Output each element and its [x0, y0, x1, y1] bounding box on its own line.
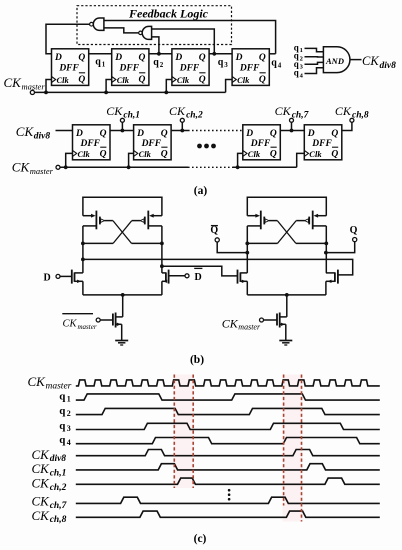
label: CK_ch,2 (waveform) — [32, 476, 67, 493]
svg-text:ch,8: ch,8 — [352, 110, 369, 120]
svg-text:q: q — [153, 57, 159, 68]
svg-text:D: D — [195, 272, 202, 283]
wire: slave latch drain rail right segment — [296, 242, 326, 244]
wire: q4 to AND input — [305, 68, 324, 74]
svg-text:Clk: Clk — [237, 75, 250, 85]
wire: master latch drain rail left segment — [83, 242, 113, 244]
wire: slave latch cross-couple diagonal 2 — [278, 221, 297, 244]
wire: DFF_ch7 Q to DFF_ch8 D — [280, 130, 304, 132]
junction: Q tap — [324, 251, 328, 255]
wire: CK_div8 to DFF_ch1 D — [56, 130, 73, 132]
wire: master right node to slave left gate — [162, 266, 238, 276]
junction: clk tap DFF_ch7 — [236, 165, 240, 169]
svg-text:1: 1 — [300, 47, 303, 54]
label: AND input q2 — [294, 51, 303, 63]
svg-text:CK: CK — [32, 508, 51, 523]
wire: clk riser DFF_ch8 — [297, 153, 305, 167]
label: AND input q1 — [294, 42, 303, 54]
svg-text:ch,7: ch,7 — [50, 501, 68, 511]
wire: q2 node to G2 bottom input — [152, 37, 159, 54]
wire: DFF1 Q to DFF2 D (node q1) — [89, 53, 112, 55]
svg-text:4: 4 — [278, 62, 282, 70]
svg-text:Q: Q — [259, 75, 266, 85]
svg-text:Q: Q — [161, 129, 168, 139]
svg-text:CK: CK — [16, 124, 35, 139]
label: CK_ch,1 — [106, 104, 140, 120]
and gate U1 (4-input AND) — [323, 47, 350, 73]
flip-flop DFF4 — [232, 49, 269, 86]
waveform: q4 — [76, 438, 380, 444]
svg-text:q: q — [95, 57, 101, 68]
wire: clk riser to DFF1 — [46, 80, 52, 93]
svg-text:CK: CK — [12, 160, 31, 175]
transistor N2 (master input, D-bar): leads — [162, 270, 185, 295]
wire: clk riser to DFF3 — [166, 80, 172, 93]
svg-text:AND: AND — [325, 56, 344, 66]
junction: clk tap DFF3 — [164, 91, 168, 95]
terminal: D-bar input — [185, 274, 189, 278]
svg-text:CK: CK — [63, 319, 78, 330]
waveform: CKch8 — [76, 511, 380, 517]
junction: master tail node — [121, 293, 125, 297]
svg-text:master: master — [78, 323, 97, 331]
svg-text:DFF: DFF — [119, 64, 140, 74]
svg-text:Q: Q — [139, 53, 146, 63]
wire: clk riser to DFF2 — [106, 80, 112, 93]
svg-text:3: 3 — [67, 424, 71, 433]
flip-flop DFF1 — [52, 49, 89, 86]
wire: CK_master bus row2 dotted segment — [188, 166, 233, 168]
svg-text:Feedback Logic: Feedback Logic — [128, 6, 209, 20]
wire: clk riser to DFF4 — [226, 80, 233, 93]
wire: G2 output to G1 bottom input — [104, 28, 139, 33]
transistor N1 (master input, D): leads — [60, 270, 83, 295]
junction: slave latch left drain node — [245, 242, 249, 246]
svg-text:Q: Q — [259, 53, 266, 63]
svg-text:Q: Q — [199, 75, 206, 85]
flip-flop DFF_ch7 — [243, 125, 280, 160]
svg-text:Q: Q — [139, 75, 146, 85]
svg-text:Q: Q — [270, 149, 277, 159]
wire: CK_master bus row2 right segment — [233, 166, 297, 168]
highlight band 1 (between marker lines) — [173, 375, 194, 489]
wire: master latch left vertical to NMOS drain — [82, 243, 84, 273]
terminal: Q — [353, 238, 357, 242]
svg-text:div8: div8 — [380, 61, 397, 71]
svg-text:(b): (b) — [190, 354, 204, 366]
wire: CK_ch2 stub — [181, 122, 183, 130]
marker line 2 (red dashed) — [192, 375, 194, 489]
svg-text:2: 2 — [160, 61, 164, 69]
wire: slave latch cross-couple diagonal 1 — [277, 221, 296, 244]
junction: q3 tap — [212, 52, 216, 56]
terminal: CK_ch8 — [350, 118, 354, 122]
svg-text:DFF: DFF — [179, 64, 200, 74]
wire: slave latch drain rail left segment — [247, 242, 277, 244]
waveform: CK_master clock — [76, 380, 380, 386]
wire: q3 to AND input — [305, 62, 324, 64]
svg-text:CK: CK — [32, 476, 51, 491]
label: CK_master (row1 input) — [4, 75, 46, 92]
junction: clk tap DFF2 — [104, 91, 108, 95]
label: node q3 — [218, 57, 229, 69]
svg-text:Q: Q — [100, 129, 107, 139]
nand gate G2 (feedback NAND, faces left) — [139, 26, 152, 39]
marker line 4 (red dashed) — [301, 375, 303, 522]
junction: master latch left drain node — [81, 242, 85, 246]
svg-text:Q: Q — [199, 53, 206, 63]
svg-text:2: 2 — [300, 56, 303, 63]
wire: DFF3 Q to DFF4 D (node q3) — [209, 53, 232, 55]
svg-text:Q: Q — [100, 149, 107, 159]
svg-text:Q: Q — [210, 225, 218, 236]
ellipsis: chain continuation dots — [197, 144, 216, 149]
wire: q2 to AND input — [305, 56, 324, 58]
wire: CK_ch7 stub — [291, 122, 293, 130]
waveform: q3 — [76, 423, 380, 429]
svg-text:Clk: Clk — [177, 75, 190, 85]
wire: master latch cross-couple diagonal 1 — [113, 221, 132, 244]
svg-text:D: D — [235, 53, 243, 63]
dashed box: feedback logic block boundary — [77, 6, 232, 45]
label: CK_master (slave tail) — [222, 317, 261, 332]
svg-text:div8: div8 — [34, 132, 51, 142]
svg-text:CK: CK — [362, 54, 379, 68]
label: CK_ch,8 — [335, 104, 369, 120]
wire: master latch drain rail right segment — [132, 242, 162, 244]
junction: clk tap DFF1 — [44, 91, 48, 95]
wire: q1 to AND input — [305, 48, 324, 51]
junction: CK_ch1 tap — [121, 129, 125, 133]
wire: slave latch right vertical to NMOS drain — [325, 243, 327, 273]
label: CK_div8 (waveform) — [32, 447, 67, 464]
svg-text:ch,8: ch,8 — [50, 515, 67, 525]
terminal: Q-bar — [215, 238, 219, 242]
wire: dotted continuation of channel chain — [188, 130, 243, 132]
svg-text:D: D — [114, 53, 122, 63]
transistor N5 (master tail, CK_master-bar): leads — [100, 295, 123, 340]
wire: clk riser DFF_ch2 — [129, 153, 134, 167]
flip-flop DFF_ch1 — [73, 125, 111, 160]
svg-text:1: 1 — [102, 61, 106, 69]
svg-text:DFF: DFF — [141, 139, 162, 149]
wire: master latch cross-couple diagonal 2 — [113, 221, 132, 244]
svg-text:CK: CK — [4, 75, 23, 90]
junction: master latch right drain node — [160, 242, 164, 246]
wire: q4 feedback to G1 top input — [104, 21, 276, 54]
wire: CK_master bus row2 left segment — [60, 166, 188, 168]
label: AND input q3 — [294, 59, 304, 71]
svg-text:ch,1: ch,1 — [123, 110, 140, 120]
svg-text:Q: Q — [78, 53, 85, 63]
svg-text:CK: CK — [32, 447, 51, 462]
wire: DFF_ch8 Q output — [342, 122, 352, 130]
wire: DFF4 Q to q4 feedback corner — [269, 53, 275, 55]
svg-text:Q: Q — [78, 75, 85, 85]
junction: CK_ch2 tap — [180, 129, 184, 133]
svg-text:D: D — [44, 273, 51, 284]
wire: Q-bar output — [217, 242, 247, 253]
transistor P2 (master latch cross-coupled right): leads — [132, 211, 162, 244]
transistor N4 (slave input right): leads — [326, 270, 338, 295]
svg-text:Clk: Clk — [78, 149, 91, 159]
junction: Q-bar tap — [245, 251, 249, 255]
wire: slave latch left vertical to NMOS drain — [246, 243, 248, 273]
label: node q4 — [271, 58, 282, 70]
ellipsis: omitted channel rows — [228, 489, 231, 501]
svg-text:Q: Q — [270, 129, 277, 139]
svg-text:Clk: Clk — [309, 149, 322, 159]
flip-flop DFF_ch8 — [304, 125, 342, 160]
junction: q2 tap — [157, 52, 161, 56]
wire: clk riser DFF_ch1 — [66, 153, 73, 167]
svg-text:Clk: Clk — [248, 149, 261, 159]
svg-text:master: master — [238, 323, 261, 332]
svg-text:DFF: DFF — [311, 139, 332, 149]
svg-text:q: q — [271, 58, 277, 69]
caption (c) — [194, 533, 207, 545]
ground (slave tail) — [279, 341, 292, 346]
svg-text:D: D — [136, 129, 144, 139]
flip-flop DFF_ch2 — [134, 125, 172, 160]
label: D — [44, 273, 51, 284]
highlight band 2 (between marker lines) — [283, 375, 303, 522]
wire: DFF2 Q to DFF3 D (node q2) — [149, 53, 172, 55]
svg-text:DFF: DFF — [250, 139, 271, 149]
terminal: CK_master-bar input — [96, 318, 100, 322]
wire: slave tail rail — [247, 294, 326, 296]
svg-text:CK: CK — [32, 494, 51, 509]
label: CK_ch,1 (waveform) — [32, 461, 67, 478]
svg-text:Clk: Clk — [139, 149, 152, 159]
terminal: CK_master input (row2) — [56, 165, 60, 169]
label: CK_ch,7 — [275, 104, 310, 120]
svg-text:D: D — [245, 129, 253, 139]
svg-text:q: q — [59, 434, 66, 446]
label: node q1 — [95, 57, 106, 69]
svg-text:(a): (a) — [194, 185, 208, 197]
label: CK_ch,7 (waveform) — [32, 494, 68, 511]
label: CK_ch,8 (waveform) — [32, 508, 67, 525]
label: q3 (waveform) — [59, 420, 71, 433]
wire: AND output CK_div8 — [350, 59, 362, 61]
label: AND input q4 — [294, 68, 304, 80]
svg-text:4: 4 — [67, 438, 71, 447]
terminal: CK_ch2 — [180, 118, 184, 122]
svg-text:CK: CK — [275, 104, 292, 118]
svg-text:Q: Q — [331, 129, 338, 139]
transistor N6 (slave tail, CK_master): leads — [264, 295, 287, 340]
junction: master right node gate tap — [160, 264, 164, 268]
caption (a) — [194, 185, 208, 197]
ground (master tail) — [115, 341, 128, 346]
terminal: CK_master input (slave tail) — [260, 318, 264, 322]
label: CK_master (row2 input) — [12, 160, 54, 176]
label: q4 (waveform) — [59, 434, 71, 447]
svg-text:CK: CK — [28, 374, 47, 389]
transistor P4 (slave latch cross-coupled right): leads — [296, 211, 326, 244]
junction: master left node to output rail — [81, 258, 85, 262]
label: CK_div8 (row2 input) — [16, 124, 51, 142]
junction: slave latch right drain node — [324, 242, 328, 246]
label: q1 (waveform) — [59, 391, 71, 404]
svg-text:ch,7: ch,7 — [292, 110, 310, 120]
flip-flop DFF3 — [172, 49, 209, 86]
nand gate G1 (feedback NAND, faces left) — [90, 18, 104, 30]
transistor P3 (slave latch cross-coupled left): leads — [247, 211, 277, 244]
wire: DFF_ch2 Q segment — [171, 130, 188, 132]
wire: G1 output to DFF1 D input — [46, 24, 90, 54]
svg-text:DFF: DFF — [58, 64, 79, 74]
waveform: CKch1 — [76, 464, 380, 470]
terminal: CK_master input (row1) — [30, 90, 34, 94]
junction: CK_ch7 tap — [290, 129, 294, 133]
terminal: CK_ch7 — [290, 118, 294, 122]
marker line 1 (red dashed) — [173, 375, 175, 489]
label: CK_master (waveform) — [28, 374, 72, 391]
waveform: CKdiv8 — [76, 450, 380, 456]
label: D-bar — [194, 268, 202, 283]
svg-text:Clk: Clk — [57, 75, 70, 85]
wire: master drain bus to slave right gate — [83, 259, 353, 275]
transistor N3 (slave input left): leads — [238, 270, 248, 295]
svg-text:CK: CK — [32, 461, 51, 476]
svg-text:CK: CK — [335, 104, 352, 118]
svg-text:ch,2: ch,2 — [50, 483, 67, 493]
wire: CK_master clock bus row1 — [35, 91, 226, 93]
svg-text:ch,1: ch,1 — [50, 468, 67, 478]
svg-text:2: 2 — [67, 409, 71, 418]
transistor P1 (master latch cross-coupled left): leads — [83, 211, 113, 244]
waveform: q1 — [76, 394, 380, 400]
wire: DFF_ch1 Q to DFF_ch2 D — [110, 130, 134, 132]
terminal: CK_ch1 — [120, 118, 124, 122]
svg-text:CK: CK — [169, 104, 186, 118]
label: node q2 — [153, 57, 164, 69]
svg-text:q: q — [59, 391, 66, 403]
junction: slave tail node — [285, 293, 289, 297]
label: CK_ch,2 — [169, 104, 203, 120]
wire: master latch top supply rail — [83, 197, 162, 215]
svg-text:q: q — [218, 57, 224, 68]
svg-text:Q: Q — [350, 225, 358, 236]
svg-text:master: master — [22, 82, 46, 92]
svg-text:q: q — [59, 405, 66, 417]
svg-text:q: q — [59, 420, 66, 432]
terminal: D input — [56, 274, 60, 278]
wire: clk riser DFF_ch7 — [238, 153, 243, 167]
wire: master latch right vertical to NMOS drain — [161, 243, 163, 273]
waveform: CKch2 — [76, 478, 380, 484]
caption (b) — [190, 354, 204, 366]
label: q2 (waveform) — [59, 405, 71, 418]
svg-text:D: D — [307, 129, 315, 139]
wire: q3 node to G2 top input — [152, 29, 215, 54]
svg-text:1: 1 — [67, 394, 71, 403]
label: Q-bar — [210, 225, 218, 236]
svg-text:div8: div8 — [50, 454, 67, 464]
svg-text:CK: CK — [106, 104, 123, 118]
svg-text:DFF: DFF — [239, 64, 260, 74]
svg-text:q: q — [294, 68, 299, 78]
svg-text:CK: CK — [222, 317, 239, 331]
marker line 3 (red dashed) — [283, 375, 285, 506]
wire: master tail rail — [83, 294, 162, 296]
waveform: CKch7 — [76, 497, 380, 503]
svg-text:master: master — [30, 166, 54, 176]
junction: clk tap DFF_ch2 — [127, 165, 131, 169]
waveform: q2 — [76, 408, 380, 414]
svg-text:3: 3 — [224, 61, 228, 69]
svg-text:D: D — [174, 53, 182, 63]
wire: CK_ch1 stub — [121, 122, 123, 130]
svg-text:DFF: DFF — [79, 139, 100, 149]
flip-flop DFF2 — [112, 49, 149, 86]
svg-text:ch,2: ch,2 — [186, 110, 203, 120]
svg-text:Clk: Clk — [117, 75, 130, 85]
junction: clk tap DFF_ch1 — [64, 165, 68, 169]
svg-text:Q: Q — [161, 149, 168, 159]
svg-text:D: D — [54, 53, 62, 63]
label: CK_div8 (AND output) — [362, 54, 396, 71]
wire: slave latch top supply rail — [247, 197, 326, 215]
svg-text:(c): (c) — [194, 533, 207, 545]
label: Feedback Logic — [128, 6, 209, 20]
label: Q — [350, 225, 358, 236]
label: CK_master-bar — [62, 314, 97, 331]
wire: Q output — [326, 242, 355, 253]
svg-text:D: D — [75, 129, 83, 139]
svg-text:Q: Q — [331, 149, 338, 159]
